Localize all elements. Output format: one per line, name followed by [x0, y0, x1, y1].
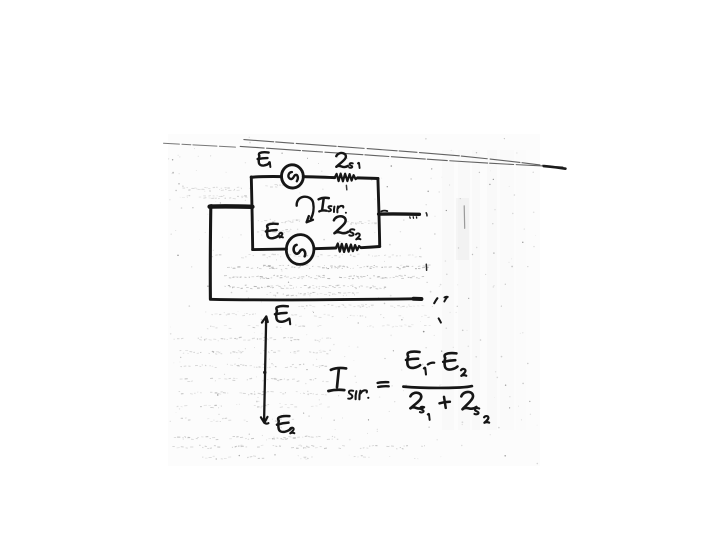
wire bottom-left segment — [253, 248, 287, 251]
wire bottom outer — [210, 299, 421, 300]
label E2 (bottom source) — [265, 223, 279, 239]
middle-right hook mark — [381, 210, 387, 213]
label ZS2 — [333, 216, 348, 234]
formula subscript sir — [348, 390, 353, 398]
page edge line (left segment) — [164, 143, 238, 147]
wire left outer vertical — [209, 207, 213, 300]
page edge line (dark end tip) — [544, 166, 566, 169]
wire top-left segment — [251, 175, 281, 179]
phasor axis E1-E2 — [264, 317, 266, 421]
stray comma near wire end — [425, 213, 428, 216]
middle-right end ticks — [410, 217, 417, 219]
phasor top arrowhead — [262, 316, 268, 322]
wire bottom-right segment — [361, 247, 380, 248]
faint gray vertical line — [463, 206, 466, 229]
numerator minus sign — [428, 363, 434, 365]
numerator E2 — [442, 353, 458, 371]
page edge line (lower) — [240, 146, 563, 167]
denominator ZS1 — [410, 392, 424, 409]
junction blob — [209, 204, 214, 209]
fraction bar — [403, 386, 472, 388]
label Isir (circulating current) — [319, 198, 329, 200]
wire middle-right — [379, 212, 420, 216]
stray vertical tick — [425, 264, 427, 270]
phasor bottom arrowhead — [261, 417, 269, 424]
stray comma below quotes — [439, 318, 441, 322]
phasor midpoint dot — [263, 371, 266, 374]
formula I underline — [328, 390, 344, 391]
equals sign — [378, 382, 389, 387]
label E1 (top source) — [257, 152, 269, 166]
wire bottom-middle segment — [314, 247, 336, 251]
quote mark 1 — [434, 298, 437, 303]
formula I (symbol) — [331, 368, 346, 370]
source E1 (sine source) — [280, 164, 304, 189]
denominator ZS2 — [460, 391, 476, 410]
source E2 (sine source) — [285, 234, 315, 266]
quote mark 2 — [444, 297, 448, 302]
stray tick near Isir — [345, 185, 347, 189]
resistor ZS2 — [336, 244, 361, 252]
wire bottom outer dark tip — [414, 297, 422, 301]
label ZS1 — [336, 153, 348, 168]
page edge line (upper) — [244, 140, 564, 169]
wire top-middle segment — [303, 177, 334, 178]
current arrow Isir (curved) — [297, 197, 314, 219]
resistor ZS1 — [335, 174, 358, 182]
wire left edge of loop — [251, 177, 252, 250]
phasor label E1 — [274, 306, 289, 323]
numerator E1 — [405, 351, 420, 368]
wire middle-left (thick) — [210, 204, 253, 209]
phasor label E2 — [276, 415, 292, 432]
wire right edge of loop — [378, 179, 380, 247]
wire top-right segment — [358, 176, 378, 180]
denominator plus sign — [439, 396, 450, 408]
